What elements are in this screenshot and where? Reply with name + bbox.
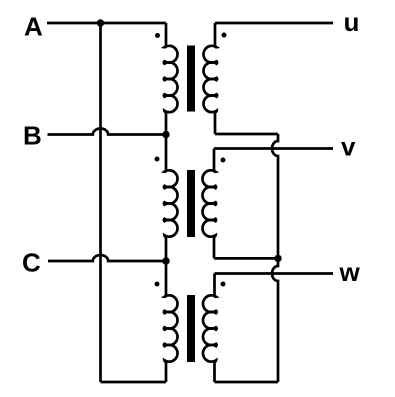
polarity dot S2 bbox=[221, 158, 226, 163]
wire w lead bbox=[215, 272, 334, 275]
svg-text:v: v bbox=[341, 131, 356, 161]
node A junction dot bbox=[97, 19, 104, 26]
wire left bus (A junction down to bottom) bbox=[99, 23, 102, 382]
transformer T2 secondary winding S2 bbox=[202, 149, 216, 259]
wire C lead with hop over bus bbox=[48, 255, 166, 261]
node B junction dot bbox=[162, 131, 169, 138]
wire B lead with hop over bus bbox=[48, 129, 167, 135]
wire right bus lower with hop over w bbox=[272, 258, 278, 382]
node C junction dot bbox=[162, 257, 169, 264]
wire S1 bottom to right bus bbox=[215, 133, 278, 136]
wire S3 bottom to right bus bbox=[215, 381, 279, 384]
wire v lead bbox=[214, 147, 333, 150]
svg-text:w: w bbox=[339, 257, 361, 287]
transformer T3 primary winding P3 bbox=[164, 261, 178, 382]
svg-text:u: u bbox=[344, 7, 360, 37]
polarity dot P1 bbox=[155, 33, 160, 38]
transformer T2 primary winding P2 bbox=[164, 135, 178, 262]
wire u lead bbox=[215, 22, 333, 25]
wire bottom left (bus to P3 bottom) bbox=[101, 381, 167, 384]
polarity dot P3 bbox=[155, 282, 160, 287]
core bar T1 bbox=[187, 46, 195, 112]
polarity dot S3 bbox=[221, 282, 226, 287]
wire S2 bottom to star junction bbox=[214, 257, 278, 260]
wire right bus upper with hop over v bbox=[272, 134, 278, 258]
node star junction dot bbox=[274, 255, 281, 262]
polarity dot S1 bbox=[222, 33, 227, 38]
svg-text:A: A bbox=[24, 11, 43, 41]
svg-text:C: C bbox=[22, 248, 41, 278]
wire A lead bbox=[47, 22, 166, 25]
transformer T3 secondary winding S3 bbox=[203, 274, 217, 383]
core bar T3 bbox=[187, 295, 195, 362]
transformer T1 secondary winding S1 bbox=[203, 23, 217, 134]
transformer T1 primary winding P1 bbox=[164, 23, 178, 135]
core bar T2 bbox=[187, 170, 195, 237]
polarity dot P2 bbox=[155, 157, 160, 162]
svg-text:B: B bbox=[23, 121, 42, 151]
